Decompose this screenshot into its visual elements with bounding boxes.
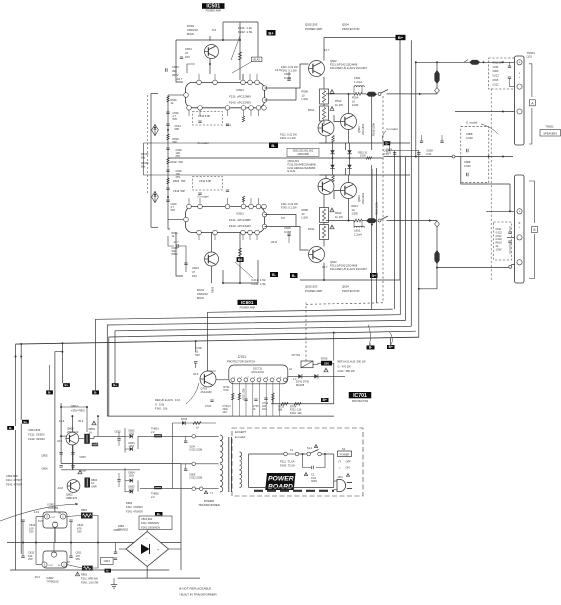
svg-text:R803: R803 bbox=[89, 427, 96, 431]
warning R611 bbox=[330, 225, 334, 229]
diode D601 bbox=[349, 143, 351, 175]
svg-text:C806: C806 bbox=[41, 467, 48, 471]
connector box B bbox=[532, 227, 538, 233]
svg-text:F242: 0.1 2W: F242: 0.1 2W bbox=[281, 69, 297, 73]
svg-text:Q501,601: Q501,601 bbox=[288, 159, 300, 163]
ferrite bead ch1 bbox=[366, 92, 377, 97]
wire g row2 bbox=[455, 156, 513, 158]
ferrite bead speaker ch2 bbox=[436, 221, 438, 268]
wire left verticals bbox=[15, 344, 17, 426]
transistor Q701 bbox=[200, 371, 216, 387]
resistor R707 bbox=[272, 393, 275, 400]
svg-text:34.5: 34.5 bbox=[193, 372, 199, 376]
resistor R613v bbox=[332, 176, 335, 183]
svg-text:50V: 50V bbox=[171, 208, 176, 212]
power label B- ch2 bbox=[290, 273, 298, 278]
dashed box power board bbox=[232, 428, 363, 496]
wire relay dashed to contacts bbox=[305, 303, 307, 362]
capacitor C617 bbox=[440, 141, 443, 143]
wire ch1 output stage bbox=[265, 64, 309, 88]
resistor R608 bbox=[320, 208, 329, 223]
IC501 pins bottom bbox=[187, 106, 192, 111]
svg-text:F211: 0.22 2W: F211: 0.22 2W bbox=[280, 133, 297, 137]
dashed box C808 bbox=[461, 127, 489, 183]
transistor Q602 bbox=[309, 247, 325, 263]
svg-text:C802,808: C802,808 bbox=[6, 474, 18, 478]
wire regulator stubs bbox=[54, 527, 56, 542]
svg-text:Q602: Q602 bbox=[330, 260, 337, 264]
power label B- ch2mid bbox=[270, 272, 278, 277]
svg-text:OFF: OFF bbox=[346, 460, 352, 464]
svg-text:-34.8: -34.8 bbox=[57, 486, 63, 490]
node C708 tap bbox=[195, 340, 197, 342]
svg-text:0.6: 0.6 bbox=[281, 216, 285, 220]
wire g-model line1 bbox=[384, 156, 453, 158]
svg-text:B+: B+ bbox=[268, 30, 274, 35]
power label B+ bundle bbox=[387, 345, 395, 349]
svg-text:COM: COM bbox=[53, 522, 58, 524]
wire input to pin bbox=[168, 94, 183, 96]
wire to speaker terminal 1 bbox=[416, 61, 515, 63]
transistor Q502 bbox=[309, 61, 325, 77]
wire terminal3 feed bbox=[455, 111, 515, 113]
svg-text:R802: R802 bbox=[81, 573, 88, 577]
svg-text:uPC1237H: uPC1237H bbox=[251, 370, 264, 374]
svg-text:2SC1841: 2SC1841 bbox=[361, 123, 365, 135]
svg-text:ON: ON bbox=[346, 466, 350, 470]
wire ch1 output line bbox=[326, 93, 354, 95]
svg-text:POWER: POWER bbox=[340, 452, 350, 456]
svg-text:UNR: UNR bbox=[91, 484, 97, 488]
svg-text:BOARD: BOARD bbox=[268, 484, 293, 491]
wire g row3 bbox=[461, 157, 510, 185]
svg-text:1/2W: 1/2W bbox=[493, 66, 499, 69]
svg-text:UNR: UNR bbox=[92, 443, 98, 447]
label UNR bbox=[92, 443, 98, 446]
ground psu bbox=[113, 578, 115, 584]
diode D742 bbox=[314, 374, 318, 379]
svg-text:16.5: 16.5 bbox=[38, 520, 43, 523]
wire bundle line3 bbox=[107, 320, 405, 416]
wire leader F211 bbox=[231, 36, 240, 60]
svg-text:B+: B+ bbox=[323, 398, 327, 402]
wire cap header bbox=[388, 145, 390, 151]
svg-text:F242: T2.0A: F242: T2.0A bbox=[280, 464, 295, 468]
warning R608 bbox=[330, 208, 334, 212]
resistor R605 zig bbox=[239, 248, 242, 256]
svg-text:1.2uH: 1.2uH bbox=[354, 80, 362, 84]
svg-text:68k: 68k bbox=[278, 408, 283, 412]
transistor Q505 bbox=[318, 120, 334, 136]
wire board top bbox=[249, 453, 284, 455]
svg-text:A2: A2 bbox=[289, 368, 293, 371]
svg-text:IC501: IC501 bbox=[236, 88, 244, 92]
svg-text:10: 10 bbox=[352, 208, 355, 212]
svg-text:2.2: 2.2 bbox=[151, 430, 155, 434]
transformer secondary winding bbox=[220, 435, 223, 463]
transistor Q801 bbox=[66, 432, 79, 445]
power label B+ q801b bbox=[112, 383, 119, 387]
ferrite bead speaker line bbox=[469, 60, 480, 65]
capacitor C611 stub bbox=[198, 193, 201, 195]
wire ch2 bias bbox=[211, 233, 213, 253]
power label B- mid bbox=[384, 141, 391, 145]
svg-text:B-: B- bbox=[271, 143, 276, 148]
svg-text:Q502: Q502 bbox=[330, 59, 337, 63]
svg-text:2SA1049: 2SA1049 bbox=[201, 390, 213, 394]
svg-text:35V: 35V bbox=[77, 530, 82, 534]
svg-text:POWER AMP: POWER AMP bbox=[305, 289, 322, 293]
wire riser x400 bbox=[399, 157, 401, 315]
svg-text:C608: C608 bbox=[426, 149, 433, 153]
svg-text:16.1: 16.1 bbox=[226, 123, 232, 127]
svg-text:Q504: Q504 bbox=[342, 23, 349, 27]
svg-text:Q802: Q802 bbox=[66, 493, 73, 497]
svg-text:10: 10 bbox=[302, 212, 305, 216]
wire psu vertical x172 bbox=[171, 423, 173, 489]
svg-text:C812: C812 bbox=[104, 559, 111, 563]
wire psu rail 470 bbox=[61, 469, 140, 471]
svg-text:2.2: 2.2 bbox=[151, 495, 155, 499]
svg-text:2SB1375: 2SB1375 bbox=[66, 496, 78, 500]
wire stub Bminus left bbox=[49, 365, 51, 390]
svg-text:B-: B- bbox=[9, 426, 12, 430]
svg-text:F242: 0.1 2W: F242: 0.1 2W bbox=[281, 206, 297, 210]
svg-text:POWER AMP: POWER AMP bbox=[206, 10, 222, 13]
svg-text:L/1W: L/1W bbox=[302, 216, 309, 220]
svg-text:IC801: IC801 bbox=[48, 503, 56, 507]
leader curve q701 bbox=[186, 383, 199, 404]
wire center bus bbox=[168, 157, 384, 159]
input jack ch1 bbox=[152, 125, 159, 136]
terminal circle t1 bbox=[192, 435, 196, 439]
warning R802 bbox=[75, 572, 79, 576]
transformer core bbox=[228, 437, 230, 492]
transistor Q503 driver bbox=[341, 114, 357, 130]
svg-text:R613: R613 bbox=[335, 211, 342, 215]
svg-text:G : 470 1W: G : 470 1W bbox=[338, 364, 352, 368]
test point box TP501 bbox=[251, 57, 262, 62]
op-amp IC501 body bbox=[186, 82, 265, 107]
transistor Q802 bbox=[67, 480, 80, 493]
svg-text:34.2: 34.2 bbox=[57, 439, 63, 443]
wire relay row bbox=[288, 375, 345, 377]
svg-text:F211: T1.6A: F211: T1.6A bbox=[280, 460, 295, 464]
wire psu mid bus bbox=[7, 542, 181, 544]
svg-text:C815: C815 bbox=[493, 79, 499, 82]
svg-text:REF,UK,E,AUS: 390 1W: REF,UK,E,AUS: 390 1W bbox=[338, 360, 367, 364]
svg-text:PROTECTOR: PROTECTOR bbox=[342, 289, 360, 293]
svg-text:D701: D701 bbox=[238, 355, 246, 359]
wire psu bottom rail bbox=[10, 569, 169, 571]
svg-text:B-: B- bbox=[369, 346, 372, 350]
wire th801 row bbox=[138, 435, 154, 437]
wire r706 row bbox=[172, 422, 216, 424]
dashed box G2 bbox=[494, 222, 512, 260]
svg-text:C708: C708 bbox=[195, 346, 202, 350]
wire feedback ch2 bbox=[168, 213, 170, 229]
svg-text:IC601: IC601 bbox=[236, 212, 244, 216]
terminal circle t2 bbox=[192, 462, 196, 466]
protector label IC701 bbox=[349, 392, 372, 398]
svg-text:C702: C702 bbox=[205, 405, 212, 408]
svg-text:F211: 47/50V: F211: 47/50V bbox=[6, 478, 22, 482]
svg-text:L/1W: L/1W bbox=[302, 97, 309, 101]
svg-text:POWER: POWER bbox=[268, 476, 294, 483]
svg-text:MA165: MA165 bbox=[296, 383, 305, 387]
wire riser x370 bbox=[369, 343, 371, 346]
svg-text:+: + bbox=[519, 210, 521, 214]
svg-text:F242: 10k: F242: 10k bbox=[290, 411, 302, 415]
power label B+ top bbox=[396, 35, 406, 40]
wire to speaker terminal 2 bbox=[437, 265, 515, 268]
svg-text:B+: B+ bbox=[113, 383, 117, 387]
capacitor C517 bbox=[420, 141, 423, 143]
svg-text:R518 220k: R518 220k bbox=[371, 122, 375, 136]
svg-text:F211:HE5/AC2SA/B1B4: F211:HE5/AC2SA/B1B4 bbox=[288, 166, 316, 170]
svg-text:35.2: 35.2 bbox=[78, 419, 84, 423]
capacitor C608s bbox=[418, 151, 420, 338]
terminal minus 1 bbox=[517, 84, 522, 89]
capacitor C809 g bbox=[508, 66, 511, 68]
junction diamond ch1 bbox=[435, 88, 440, 94]
resistor R514 bbox=[354, 93, 362, 96]
svg-text:C808: C808 bbox=[466, 132, 473, 136]
wire riser x405 bbox=[405, 157, 407, 321]
svg-text:RBV602: RBV602 bbox=[118, 527, 129, 531]
wire bundle line1 bbox=[208, 309, 393, 371]
power label B- q801b bbox=[92, 390, 99, 394]
svg-text:F242:10000/63V: F242:10000/63V bbox=[141, 525, 160, 529]
terminal circle t4 bbox=[199, 487, 203, 491]
protector IC D701 body bbox=[229, 365, 288, 384]
svg-text:C805: C805 bbox=[41, 454, 48, 458]
svg-text:F211: 0.22 2W: F211: 0.22 2W bbox=[281, 65, 298, 69]
diode D602 bbox=[347, 165, 352, 169]
svg-text:1/2W: 1/2W bbox=[352, 103, 359, 107]
svg-text:C809: C809 bbox=[493, 70, 499, 73]
warning C1 bbox=[304, 473, 307, 476]
svg-text:D804: D804 bbox=[126, 501, 133, 505]
wire ic701 riser bbox=[333, 333, 335, 361]
regulator IC802 bbox=[43, 551, 67, 568]
resistor R518 bbox=[371, 94, 373, 150]
resistor R515 stub bbox=[242, 116, 244, 122]
wire input to pin601 bbox=[168, 219, 183, 221]
wire psu rail 463 bbox=[61, 463, 181, 465]
svg-text:25V: 25V bbox=[176, 175, 181, 179]
capacitor C821 bbox=[117, 480, 120, 482]
svg-text:OUT: OUT bbox=[49, 565, 54, 567]
svg-text:RY701: RY701 bbox=[292, 353, 301, 357]
svg-text:56P: 56P bbox=[175, 127, 180, 131]
node bias top bbox=[239, 39, 241, 41]
wire cap column bbox=[72, 445, 74, 470]
leader curve IC801 bbox=[0, 504, 78, 521]
svg-text:TN501: TN501 bbox=[527, 51, 536, 55]
power label B+ ch2 bbox=[370, 273, 378, 278]
svg-text:G model: G model bbox=[386, 127, 398, 131]
capacitor C604s bbox=[394, 151, 396, 310]
svg-text:5.6K: 5.6K bbox=[223, 388, 229, 392]
wire board bottom bbox=[249, 487, 334, 489]
svg-text:R511: R511 bbox=[308, 108, 315, 112]
svg-text:25V: 25V bbox=[29, 530, 34, 534]
svg-text:50V: 50V bbox=[195, 353, 200, 357]
svg-text:Q502,505: Q502,505 bbox=[305, 23, 318, 27]
svg-text:B-: B- bbox=[94, 391, 97, 395]
svg-text:1SR1NRB: 1SR1NRB bbox=[297, 153, 309, 156]
svg-text:C808: C808 bbox=[464, 160, 471, 164]
svg-text:R603: R603 bbox=[173, 179, 180, 183]
wire psu bottom rail2 bbox=[118, 577, 200, 579]
transistor Q605 bbox=[318, 179, 334, 195]
label C812 box bbox=[101, 557, 114, 564]
power label B- psu bbox=[105, 569, 112, 573]
resistor R804 bbox=[85, 478, 91, 488]
svg-text:10V: 10V bbox=[223, 411, 228, 414]
svg-text:F211:REF,UK,E,AUS 2SC4467: F211:REF,UK,E,AUS 2SC4467 bbox=[330, 66, 367, 70]
node ch2 bbox=[239, 282, 241, 284]
svg-text:25V: 25V bbox=[28, 557, 33, 561]
IC501 pins top bbox=[197, 80, 202, 85]
svg-text:0.022 100N: 0.022 100N bbox=[189, 477, 202, 480]
svg-text:B+: B+ bbox=[389, 345, 393, 349]
resistor R515 bbox=[366, 157, 372, 159]
wire riser x376 bbox=[375, 168, 377, 303]
svg-text:BIAS: BIAS bbox=[197, 296, 204, 300]
resistor R703 bbox=[281, 402, 288, 405]
IC601 pins right bbox=[262, 212, 267, 217]
input jack ch2 bbox=[152, 192, 159, 203]
svg-text:R605: R605 bbox=[211, 286, 215, 293]
svg-text:-34.8: -34.8 bbox=[270, 240, 277, 244]
wire bus y403 bbox=[271, 403, 334, 405]
transistor Q601 bias bbox=[205, 252, 219, 266]
diode D502 bbox=[330, 165, 335, 169]
power label B+ left1 bbox=[22, 420, 29, 424]
svg-text:R: R bbox=[519, 222, 521, 225]
svg-text:Q801: Q801 bbox=[71, 404, 79, 408]
svg-text:R608: R608 bbox=[302, 208, 309, 212]
svg-text:B-: B- bbox=[48, 391, 51, 395]
svg-text:B6: B6 bbox=[238, 258, 242, 262]
power label B+ midtop bbox=[267, 30, 276, 36]
svg-text:1002: 1002 bbox=[129, 445, 135, 448]
svg-text:+: + bbox=[519, 61, 521, 65]
relay contact RL501-1 bbox=[378, 92, 381, 95]
svg-text:Q604: Q604 bbox=[342, 285, 349, 289]
svg-text:R514: R514 bbox=[352, 96, 359, 100]
wire bundle dashed relay bbox=[306, 303, 383, 305]
svg-text:B+: B+ bbox=[65, 383, 69, 387]
resistor R508 bbox=[320, 89, 329, 104]
svg-text:35V: 35V bbox=[76, 557, 81, 561]
svg-text:T479015S: T479015S bbox=[46, 579, 59, 583]
svg-text:B+: B+ bbox=[371, 274, 376, 278]
svg-text:0.022 100N: 0.022 100N bbox=[189, 449, 202, 452]
wire mid horizontals bbox=[144, 142, 333, 144]
svg-text:14.9: 14.9 bbox=[34, 510, 40, 514]
wire ch2 output line bbox=[326, 220, 354, 222]
wire bundle line4 bbox=[115, 326, 411, 383]
svg-text:0.022: 0.022 bbox=[493, 83, 500, 86]
svg-text:Q801!: Q801! bbox=[67, 427, 75, 431]
dashed link right bbox=[490, 89, 492, 280]
svg-text:1002: 1002 bbox=[129, 433, 135, 436]
wire plug feed bbox=[334, 480, 337, 482]
svg-text:BIAS: BIAS bbox=[187, 32, 194, 36]
svg-text:10: 10 bbox=[302, 93, 305, 97]
transistor Q501 bias bbox=[205, 45, 219, 59]
svg-text:F242: uPC1342V: F242: uPC1342V bbox=[229, 224, 251, 228]
svg-text:F242: uPC1342V: F242: uPC1342V bbox=[229, 101, 251, 105]
svg-text:16V: 16V bbox=[185, 55, 190, 59]
svg-text:C614 6.8P: C614 6.8P bbox=[199, 179, 212, 183]
svg-text:1/2W: 1/2W bbox=[352, 212, 359, 216]
resistor R513v bbox=[332, 136, 335, 143]
resistor R706 zig bbox=[193, 422, 201, 425]
resistor R611 bbox=[320, 225, 329, 240]
svg-text:1/2W: 1/2W bbox=[360, 155, 366, 158]
svg-text:PROTECTOR SWITCH: PROTECTOR SWITCH bbox=[227, 359, 255, 363]
warning Q802 bbox=[78, 470, 82, 474]
wire D701 pin drops bbox=[232, 382, 234, 416]
svg-text:2SC1841: 2SC1841 bbox=[361, 192, 365, 204]
svg-text:-15.3: -15.3 bbox=[34, 575, 40, 579]
svg-text:C801,802: C801,802 bbox=[141, 517, 153, 521]
wire input column bbox=[167, 95, 169, 213]
svg-text:Q602,603: Q602,603 bbox=[305, 285, 318, 289]
label C614 bbox=[193, 177, 223, 191]
svg-text:0.002: 0.002 bbox=[466, 136, 473, 140]
wire R705 net bbox=[313, 363, 321, 364]
svg-text:PROTECTOR: PROTECTOR bbox=[352, 399, 368, 403]
svg-text:560: 560 bbox=[173, 140, 178, 144]
svg-text:R706: R706 bbox=[181, 417, 188, 421]
svg-text:0.002: 0.002 bbox=[464, 164, 471, 168]
svg-text:R614: R614 bbox=[352, 204, 359, 208]
wire amp right rail bbox=[399, 38, 401, 281]
svg-text:C801,806: C801,806 bbox=[28, 428, 41, 432]
IC501 pins right bbox=[262, 86, 267, 91]
wire input rail bbox=[150, 93, 152, 227]
svg-text:F211: 6800/50V: F211: 6800/50V bbox=[141, 521, 160, 525]
resistor R615 stub bbox=[242, 196, 244, 202]
test point box ch2 bbox=[237, 257, 244, 262]
svg-text:B+: B+ bbox=[398, 35, 404, 40]
warning R511 bbox=[330, 107, 334, 111]
capacitor C514g stub bbox=[226, 124, 229, 126]
svg-text:14.7: 14.7 bbox=[324, 48, 330, 52]
power label B- bundle bbox=[367, 346, 375, 350]
svg-text:1/2W: 1/2W bbox=[496, 248, 502, 251]
power label B- left1 bbox=[7, 426, 14, 430]
svg-text:R818 1R: R818 1R bbox=[493, 62, 503, 65]
power label B+ trans bbox=[155, 512, 163, 516]
svg-text:⌓: ⌓ bbox=[339, 466, 342, 470]
terminal minus 2 bbox=[517, 235, 522, 240]
svg-text:POWER AMP: POWER AMP bbox=[305, 27, 322, 31]
svg-text:E,AUS: E,AUS bbox=[288, 169, 296, 173]
svg-text:F211:S/F242:2SC4468: F211:S/F242:2SC4468 bbox=[330, 264, 358, 268]
wire bus y416 bbox=[107, 415, 334, 417]
power label B+ ic701 bbox=[321, 398, 329, 402]
svg-text:16V: 16V bbox=[192, 274, 197, 278]
svg-text:56P: 56P bbox=[181, 189, 186, 193]
svg-text:R702 100k: R702 100k bbox=[243, 388, 246, 400]
wire relay dashed link bbox=[382, 96, 384, 303]
